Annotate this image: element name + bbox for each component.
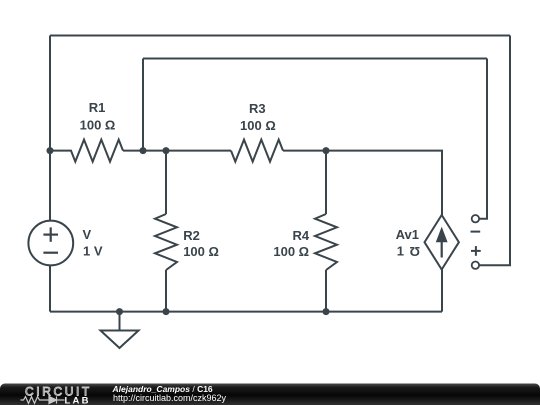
svg-text:100 Ω: 100 Ω [80, 118, 116, 133]
voltage source V minus sign [43, 252, 58, 254]
voltage source V plus sign [43, 227, 58, 252]
svg-text:100 Ω: 100 Ω [273, 244, 309, 259]
resistor R2 (zigzag) [155, 214, 177, 270]
wire: R2 bottom lead [165, 270, 167, 312]
wire: horizontal from R3 right to Av1 top [283, 151, 442, 215]
svg-text:1 V: 1 V [83, 243, 103, 258]
resistor R1 (zigzag) [50, 140, 123, 162]
wire: R4 top lead [325, 151, 327, 214]
CircuitLab logo: resistor zigzag [21, 396, 65, 403]
wire: bottom rail [50, 311, 442, 313]
footer bar [0, 384, 540, 405]
svg-text:100 Ω: 100 Ω [240, 118, 276, 133]
junction node at (166,311.6) [163, 308, 170, 315]
svg-text:R2: R2 [183, 228, 200, 243]
junction node at (326,311.6) [323, 308, 330, 315]
wire: main horizontal between R1 and R3 [123, 150, 231, 152]
wire: left vertical (x=50) [49, 36, 51, 312]
svg-text:1: 1 [397, 244, 404, 259]
wire: R4 bottom lead [325, 270, 327, 312]
svg-text:V: V [83, 227, 92, 242]
wire: inner right vertical down to - terminal [479, 59, 487, 219]
junction node at (326,150.6) [323, 147, 330, 154]
CircuitLab logo: diode [49, 396, 57, 403]
CircuitLab logo: CIRCUIT word [25, 385, 92, 399]
svg-text:100 Ω: 100 Ω [183, 244, 219, 259]
terminal circle (plus output) [472, 262, 479, 269]
voltage source V body [28, 221, 73, 266]
resistor R4 (zigzag) [315, 214, 337, 270]
ground [101, 312, 139, 348]
junction node at (119.5,311.6) [116, 308, 123, 315]
junction node at (50,150.6) [47, 147, 330, 315]
Av1 arrow [437, 228, 447, 258]
wire: Av1 bottom lead [441, 270, 443, 312]
svg-text:Ω: Ω [410, 244, 420, 259]
dependent source Av1 diamond [425, 215, 459, 270]
resistor R3 (zigzag) [231, 140, 283, 162]
svg-text:R4: R4 [292, 228, 309, 243]
wire: outer right vertical down to + terminal [479, 36, 510, 266]
wire: vertical from inner rail to node at (143,150.6) [142, 59, 144, 151]
junction node at (166,150.6) [163, 147, 170, 154]
terminal circle (minus output) [472, 215, 479, 269]
junction node at (143,150.6) [140, 147, 147, 154]
svg-text:http://circuitlab.com/czk962y: http://circuitlab.com/czk962y [113, 393, 227, 403]
svg-text:LAB: LAB [65, 395, 91, 405]
terminal plus mark [471, 250, 481, 252]
wire: outer top rail [50, 35, 510, 37]
svg-text:R3: R3 [249, 101, 266, 116]
wire: R2 top lead [165, 151, 167, 214]
wire: inner top rail [143, 58, 487, 60]
terminal minus mark [471, 232, 481, 256]
svg-text:R1: R1 [89, 100, 106, 115]
svg-text:Av1: Av1 [396, 227, 419, 242]
